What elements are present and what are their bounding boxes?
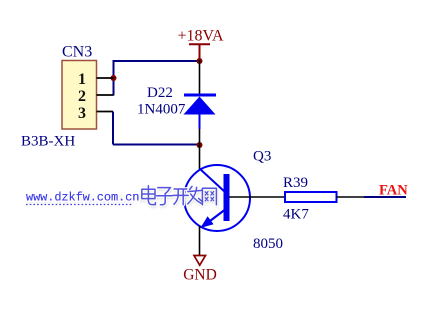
transistor collector wire	[199, 146, 201, 169]
svg-text:FAN: FAN	[379, 183, 408, 199]
svg-text:+18VA: +18VA	[178, 28, 225, 45]
svg-text:1: 1	[78, 71, 86, 88]
diode D22 cathode bar	[184, 94, 216, 97]
base wire to R39	[229, 196, 285, 198]
svg-text:D22: D22	[147, 85, 173, 101]
svg-text:8050: 8050	[253, 236, 283, 252]
wire: top rail from CN3 to power	[114, 60, 200, 62]
svg-text:GND: GND	[183, 267, 217, 284]
resistor right pin wire	[337, 196, 365, 198]
transistor Q3 emitter diagonal	[206, 210, 225, 224]
diode top lead wire	[199, 60, 201, 94]
power symbol +18VA bar	[189, 44, 210, 59]
diode D22 triangle	[184, 97, 216, 115]
svg-text:3: 3	[78, 105, 86, 122]
emitter wire to ground	[199, 226, 201, 256]
junction dot at power rail	[197, 58, 203, 64]
transistor Q3 collector diagonal	[200, 169, 226, 193]
diode D22 anode pin	[199, 114, 201, 129]
watermark url www.dzkfw.com.cn	[26, 191, 139, 205]
pin 3 stub wire	[97, 111, 114, 113]
transistor Q3 base bar	[224, 174, 230, 221]
transistor Q3 emitter arrow	[200, 216, 213, 228]
svg-text:2: 2	[78, 88, 86, 105]
svg-text:www.dzkfw.com.cn: www.dzkfw.com.cn	[26, 191, 139, 205]
junction dot below diode	[197, 142, 203, 148]
svg-text:4K7: 4K7	[283, 207, 309, 223]
diode bottom lead wire	[199, 128, 201, 146]
junction dot at pin 1	[111, 75, 117, 81]
svg-text:Q3: Q3	[253, 149, 271, 165]
svg-text:1N4007: 1N4007	[137, 102, 186, 118]
watermark shadow	[27, 188, 217, 207]
svg-text:B3B-XH: B3B-XH	[21, 134, 75, 150]
watermark chinese characters 电子开发网	[142, 186, 217, 205]
pin 2 stub wire	[97, 94, 114, 96]
wire: pin 3 vertical drop	[112, 112, 114, 145]
connector CN3 body	[62, 61, 97, 130]
ground symbol	[194, 256, 206, 266]
transistor Q3 circle	[184, 165, 250, 231]
svg-text:R39: R39	[283, 175, 308, 191]
resistor R39 body	[285, 192, 337, 202]
svg-text:CN3: CN3	[62, 44, 92, 61]
pin 1 stub wire	[97, 77, 114, 79]
wire: bottom rail to diode junction	[113, 144, 200, 146]
wire to FAN net	[364, 196, 406, 198]
wire: vertical at CN3 pins 1-2	[113, 60, 115, 96]
